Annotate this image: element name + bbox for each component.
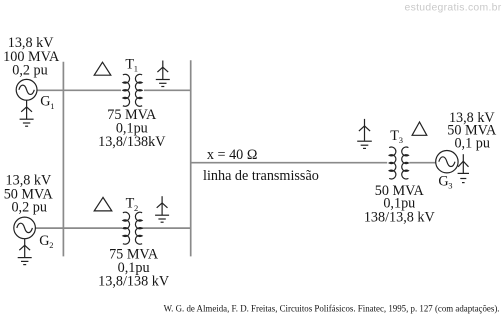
svg-text:3: 3 (448, 181, 452, 191)
svg-text:estudegratis.com.br: estudegratis.com.br (405, 3, 502, 14)
svg-text:W. G. de Almeida, F. D. Freita: W. G. de Almeida, F. D. Freitas, Circuit… (164, 303, 500, 313)
svg-text:0,1 pu: 0,1 pu (454, 136, 489, 152)
svg-text:G: G (40, 94, 50, 110)
svg-text:0,2 pu: 0,2 pu (12, 63, 47, 79)
svg-text:13,8/138kV: 13,8/138kV (98, 134, 166, 150)
svg-text:2: 2 (49, 240, 53, 250)
svg-text:1: 1 (134, 64, 138, 74)
svg-text:G: G (39, 233, 49, 249)
svg-text:2: 2 (134, 203, 138, 213)
svg-text:G: G (438, 173, 448, 189)
svg-text:3: 3 (399, 135, 403, 145)
svg-text:1: 1 (50, 101, 54, 111)
svg-text:0,2 pu: 0,2 pu (11, 200, 46, 216)
svg-text:linha de transmissão: linha de transmissão (203, 168, 319, 184)
svg-text:13,8/138 kV: 13,8/138 kV (98, 273, 170, 289)
svg-text:138/13,8 kV: 138/13,8 kV (364, 209, 436, 225)
svg-text:x = 40 Ω: x = 40 Ω (207, 147, 257, 163)
